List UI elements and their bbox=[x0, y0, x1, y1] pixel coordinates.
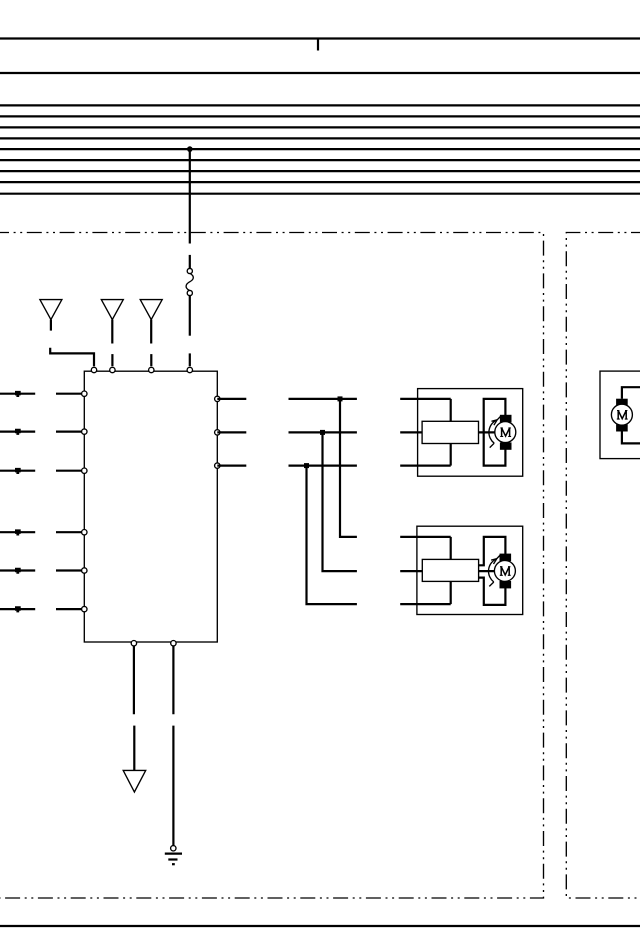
junction on output wire 2 bbox=[320, 430, 325, 435]
motor 2 label M bbox=[500, 567, 511, 576]
relay box 2 row3 rise to actuator bbox=[450, 581, 452, 604]
branch wire 3 down bbox=[307, 466, 357, 604]
left input wire 1 bbox=[0, 393, 35, 395]
pin top 4 bbox=[187, 367, 192, 372]
arrow-out triangle bbox=[123, 770, 146, 792]
left wire 4 into pin bbox=[56, 531, 84, 533]
motor 1 label M bbox=[500, 428, 511, 437]
bus line A (top) bbox=[0, 37, 640, 39]
inline connector lower half bbox=[187, 290, 192, 295]
ground bar 1 bbox=[165, 852, 182, 854]
inline connector squiggle bbox=[186, 274, 193, 291]
inline connector upper half bbox=[187, 268, 192, 273]
pin top 1 bbox=[91, 367, 96, 372]
bus line 6 bbox=[0, 159, 640, 161]
stem of triangle 2 bbox=[111, 320, 113, 344]
splice marker on left input wire 6 bbox=[15, 606, 21, 612]
wire from pin bottom 1 bbox=[133, 646, 135, 714]
left wire 6 into pin bbox=[56, 608, 84, 610]
splice marker on left input wire 4 bbox=[15, 529, 21, 535]
relay box 1 row3 rise to actuator bbox=[450, 444, 452, 466]
splice marker on left input wire 1 bbox=[15, 391, 21, 397]
motor 2 lower bracket wire bbox=[479, 578, 506, 605]
branch wire 1 down bbox=[340, 399, 357, 537]
bus line 3 bbox=[0, 126, 640, 128]
wire from triangle 3 to control unit bbox=[150, 354, 152, 366]
output wire 3 segment b bbox=[289, 465, 357, 467]
wire into relay box 1 row 2 bbox=[400, 431, 422, 433]
relay box 1 row1 drop to actuator bbox=[450, 399, 452, 421]
motor 1 body bbox=[495, 422, 516, 443]
bus line 4 bbox=[0, 137, 640, 139]
pin left 5 bbox=[82, 568, 87, 573]
motor 1 brush bottom bbox=[500, 442, 512, 449]
bus line 1 bbox=[0, 104, 640, 106]
bus line 2 bbox=[0, 115, 640, 117]
bottom frame line bbox=[0, 925, 640, 927]
wire from bus line 5 down bbox=[189, 149, 191, 243]
wire into relay box 2 row 3 bbox=[400, 603, 451, 605]
motor 3 body bbox=[611, 404, 632, 425]
motor 2 rotation arrow bbox=[489, 559, 497, 582]
bus line 7 bbox=[0, 170, 640, 172]
pin left 2 bbox=[82, 429, 87, 434]
right module box (partial) bbox=[600, 371, 640, 459]
pin right 3 bbox=[215, 463, 220, 468]
arrow-in triangle 1 bbox=[40, 300, 62, 320]
pin right 2 bbox=[215, 430, 220, 435]
bus line 5 bbox=[0, 148, 640, 150]
pin bottom 1 bbox=[131, 641, 136, 646]
left wire 2 into pin bbox=[56, 431, 84, 433]
left input wire 4 bbox=[0, 531, 35, 533]
splice marker on left input wire 3 bbox=[15, 468, 21, 474]
motor 2 brush bottom bbox=[500, 581, 512, 588]
motor 3 top wire bbox=[622, 387, 640, 399]
motor 1 brush top bbox=[500, 415, 512, 423]
left wire 5 into pin bbox=[56, 569, 84, 571]
output wire 1 segment b bbox=[289, 398, 357, 400]
harness boundary box right (dash-dot) bbox=[566, 233, 640, 899]
wire actuator 2 to motor 2 bbox=[479, 570, 495, 572]
arrow-in triangle 3 bbox=[140, 300, 162, 320]
motor 3 brush top bbox=[616, 399, 628, 406]
junction on output wire 3 bbox=[304, 463, 309, 468]
wire to arrow-out triangle bbox=[133, 726, 135, 771]
ground bar 3 bbox=[172, 863, 175, 865]
wire L-bend from triangle 1 to control unit bbox=[50, 348, 94, 366]
wire into relay box 1 row 3 bbox=[400, 465, 451, 467]
output wire 3 segment a bbox=[217, 465, 246, 467]
actuator block 1 bbox=[422, 421, 478, 443]
bus line 8 bbox=[0, 181, 640, 183]
output wire 2 segment a bbox=[217, 431, 246, 433]
ground bar 2 bbox=[168, 858, 177, 860]
left wire 3 into pin bbox=[56, 470, 84, 472]
splice marker on left input wire 2 bbox=[15, 429, 21, 435]
motor 1 rotation arrow bbox=[489, 420, 497, 443]
wire into relay box 2 row 2 bbox=[400, 570, 422, 572]
wire from triangle 2 to control unit bbox=[111, 354, 113, 366]
stem of triangle 1 bbox=[50, 320, 52, 331]
pin left 4 bbox=[82, 530, 87, 535]
motor 3 bottom wire bbox=[622, 431, 640, 443]
relay box 1 outline bbox=[418, 389, 523, 477]
pin top 2 bbox=[110, 367, 115, 372]
bus line B bbox=[0, 72, 640, 74]
left input wire 5 bbox=[0, 569, 35, 571]
ground terminal bbox=[171, 846, 176, 851]
wire below connector bbox=[189, 296, 191, 336]
motor 1 bracket wire bbox=[484, 399, 506, 466]
splice marker on left input wire 5 bbox=[15, 568, 21, 574]
pin left 6 bbox=[82, 606, 87, 611]
arrow-in triangle 2 bbox=[101, 300, 123, 320]
output wire 1 segment a bbox=[217, 398, 246, 400]
wire to ground bbox=[172, 726, 174, 846]
wire segment above connector bbox=[189, 255, 191, 268]
left input wire 2 bbox=[0, 431, 35, 433]
left input wire 6 bbox=[0, 608, 35, 610]
pin right 1 bbox=[215, 396, 220, 401]
pin left 1 bbox=[82, 391, 87, 396]
output wire 2 segment b bbox=[289, 431, 357, 433]
left input wire 3 bbox=[0, 470, 35, 472]
wire into relay box 2 row 1 bbox=[400, 536, 451, 538]
control unit box bbox=[84, 371, 217, 642]
junction on bus line 5 bbox=[187, 146, 193, 152]
junction on output wire 1 bbox=[338, 396, 343, 401]
branch wire 2 down bbox=[323, 432, 357, 571]
pin top 3 bbox=[149, 367, 154, 372]
pin bottom 2 bbox=[171, 641, 176, 646]
left wire 1 into pin bbox=[56, 393, 84, 395]
motor 2 body bbox=[494, 560, 515, 581]
relay box 2 row1 drop to actuator bbox=[450, 537, 452, 560]
motor 2 upper bracket wire bbox=[479, 537, 506, 565]
wire actuator 1 to motor 1 bbox=[479, 431, 495, 433]
relay box 2 outline bbox=[417, 526, 523, 614]
harness boundary box left (dash-dot) bbox=[0, 233, 544, 899]
pin left 3 bbox=[82, 468, 87, 473]
wire into relay box 1 row 1 bbox=[400, 398, 451, 400]
actuator block 2 bbox=[422, 559, 478, 581]
stem of triangle 3 bbox=[150, 320, 152, 344]
wire from pin bottom 2 bbox=[172, 646, 174, 714]
wire into control unit pin bbox=[189, 353, 191, 366]
motor 3 label M bbox=[617, 411, 628, 420]
bus line 9 bbox=[0, 193, 640, 195]
tick on bus line A bbox=[317, 39, 319, 51]
motor 2 brush top bbox=[500, 554, 512, 562]
motor 3 brush bottom bbox=[616, 424, 628, 431]
